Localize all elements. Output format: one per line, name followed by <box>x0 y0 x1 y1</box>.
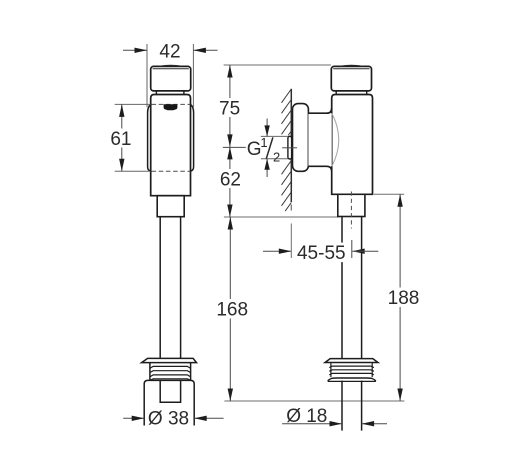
dimension 62 arrow up <box>227 147 232 160</box>
escutcheon flange (front) <box>142 358 197 362</box>
dimension 62 line <box>229 147 231 217</box>
extension pipe center (45-55) <box>351 240 353 258</box>
neck between cap and body (front) <box>155 91 157 95</box>
svg-text:Ø 18: Ø 18 <box>286 406 327 427</box>
dimension Ø18 right line <box>362 423 387 425</box>
push button cap (front) <box>151 66 191 91</box>
svg-text:75: 75 <box>219 98 240 119</box>
dimension Ø38 line left <box>123 417 144 419</box>
extension line 42 left <box>146 44 148 107</box>
extension line 61 bottom <box>115 170 151 172</box>
dimension 45-55 label background <box>295 243 348 263</box>
G1/2 leader right segment <box>282 147 297 149</box>
wall hatching <box>282 89 292 211</box>
connection nut (front) <box>157 196 184 217</box>
thread stack (front) <box>149 363 151 381</box>
dimension 168 label <box>215 299 251 319</box>
dimension 188 label <box>387 288 422 308</box>
cap inner top line (side) <box>333 68 369 70</box>
G1/2 extension line bottom <box>261 158 288 160</box>
svg-text:2: 2 <box>273 150 280 165</box>
dimension 168 arrow up <box>228 217 233 230</box>
G1/2 dimension arrow upper <box>266 119 268 137</box>
dimension 42 line right <box>193 49 217 51</box>
boss top edge <box>308 108 331 113</box>
connection nut (side) <box>338 194 365 216</box>
flush pipe left edge (side) <box>341 217 343 359</box>
svg-text:42: 42 <box>159 42 180 63</box>
flush pipe right edge (side) <box>361 217 363 359</box>
svg-text:61: 61 <box>110 129 131 150</box>
svg-text:G: G <box>247 139 262 160</box>
boss fill <box>308 113 331 166</box>
push button cap (side) <box>331 66 371 91</box>
dimension 45-55 left line <box>263 250 291 252</box>
dimension Ø18 left line <box>282 423 342 425</box>
dimension 61 arrow up <box>119 104 124 117</box>
G1/2 extension line top <box>261 135 288 137</box>
body cover bulge right (front) <box>191 105 194 171</box>
body cover bulge left (front) <box>148 105 151 171</box>
side body <box>332 95 373 195</box>
GROHE logo badge <box>164 104 178 110</box>
dimension Ø38 label <box>147 409 192 428</box>
dimension 75 arrow down <box>227 134 232 147</box>
center line dashed through nut <box>350 192 352 229</box>
dimension 61 arrow down <box>119 159 124 172</box>
svg-text:62: 62 <box>220 169 241 190</box>
dimension 188 arrow up <box>397 194 402 207</box>
bottom datum line <box>224 400 404 402</box>
dimension 45-55 arrow right <box>352 249 365 254</box>
wall line <box>290 89 292 202</box>
dimension 45-55 arrow left <box>279 249 292 254</box>
flush pipe left edge (front) <box>159 217 161 359</box>
dimension Ø18 arrow right <box>362 421 375 426</box>
pipe below threads (side) <box>341 381 343 431</box>
hidden dashed line upper (front, 61 top) <box>152 103 191 105</box>
thread bottom lip (side) <box>328 378 376 381</box>
white mask for G1/2 zone <box>259 135 288 161</box>
cap dome arc (side) <box>340 64 362 67</box>
escutcheon flange (side) <box>325 359 378 363</box>
G1/2 dimension arrow lower <box>266 159 268 177</box>
hidden dashed line lower (front, 61 bottom) <box>152 170 191 172</box>
neck (side) <box>335 91 337 95</box>
inner down tube (front) <box>160 381 180 402</box>
dimension 42 arrow right <box>193 48 206 53</box>
wall rosette <box>293 104 309 172</box>
svg-text:188: 188 <box>388 288 420 309</box>
thread ridges (front) <box>150 366 190 368</box>
dimension Ø38 arrow left <box>132 416 145 421</box>
thread stack sides (side) <box>330 363 332 378</box>
dimension 168 line <box>229 217 231 401</box>
shared tick at G1/2 level <box>223 146 246 148</box>
dimension 61 line <box>121 104 123 171</box>
dimension 75 arrow up <box>227 65 232 78</box>
top reference line <box>224 64 331 66</box>
boss silhouette arc <box>332 114 339 166</box>
dimension 75 line <box>229 65 231 147</box>
dimension 188 line <box>399 194 401 401</box>
flush pipe right edge (front) <box>180 217 182 359</box>
dimension 61 label <box>110 129 133 148</box>
dimension 188 arrow down <box>397 389 402 402</box>
thread ridges (side) <box>329 366 374 368</box>
dimension 62 label <box>219 169 242 188</box>
mid reference line (pipe start) <box>224 216 339 218</box>
dimension 42 line left <box>123 49 147 51</box>
G1/2 nipple end <box>288 136 292 159</box>
dimension Ø38 line right <box>194 417 223 419</box>
dimension 42 arrow left <box>135 48 148 53</box>
connector sleeve (front, Ø38) <box>144 380 194 425</box>
extension line 188 top <box>374 193 404 195</box>
extension tick wall (45-55) <box>290 224 292 259</box>
dimension Ø38 arrow right <box>194 416 207 421</box>
dimension 62 arrow down <box>227 205 232 218</box>
svg-text:168: 168 <box>216 300 248 321</box>
dimension 75 label <box>219 98 241 117</box>
svg-text:1: 1 <box>260 135 267 150</box>
extension line 61 top <box>115 103 151 105</box>
dimension 168 arrow down <box>228 389 233 402</box>
cap dome arc (front) <box>160 64 182 67</box>
svg-text:45-55: 45-55 <box>297 243 346 264</box>
dimension Ø18 arrow left <box>330 421 343 426</box>
boss bottom edge <box>308 166 331 171</box>
wall line lower dash <box>290 205 292 211</box>
cap inner top line (front) <box>153 68 189 70</box>
dimension 45-55 right tail <box>352 250 378 252</box>
svg-text:Ø 38: Ø 38 <box>148 408 189 429</box>
valve body (front) <box>151 95 191 196</box>
extension line 42 right <box>192 44 194 107</box>
